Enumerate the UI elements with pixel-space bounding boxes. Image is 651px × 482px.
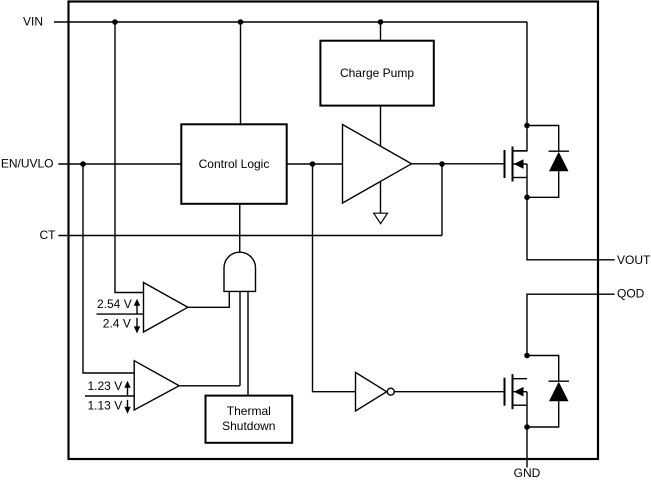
wire driver output to top FET gate: [412, 163, 505, 165]
wire VIN to top FET drain: [514, 22, 528, 151]
diode D2 body diode: [527, 356, 569, 428]
body stub Q1 with arrow: [514, 163, 528, 165]
transistor Q1 pass FET: [505, 147, 528, 198]
wire EN comparator reference stub: [85, 395, 134, 397]
wire VIN rail: [54, 21, 527, 23]
svg-text:GND: GND: [514, 466, 541, 480]
node Q1 source junction: [524, 195, 530, 201]
node Q2 drain junction: [524, 353, 530, 359]
block U4 Thermal Shutdown: [206, 396, 293, 443]
source stub Q2: [514, 404, 528, 406]
node Q1 drain junction: [524, 123, 530, 129]
wire QOD: [527, 294, 615, 355]
block U2 Charge Pump: [320, 41, 433, 106]
IC outline: [69, 2, 599, 460]
svg-text:Control Logic: Control Logic: [199, 157, 270, 171]
inverter U5: [356, 372, 387, 411]
wire EN sense to EN comparator: [83, 164, 134, 373]
block U1 Control Logic: [181, 124, 286, 204]
wire EN comparator output to AND input: [179, 291, 240, 385]
gate bar Q2: [504, 378, 506, 406]
svg-text:EN/UVLO: EN/UVLO: [1, 156, 54, 170]
channel bar Q2: [512, 374, 514, 409]
wire AND output to control logic: [239, 204, 241, 252]
node EN sense junction: [80, 161, 86, 167]
node control logic supply junction: [238, 19, 244, 25]
wire GND: [526, 427, 528, 468]
wire VIN to control logic top: [240, 22, 242, 124]
channel bar Q1: [512, 147, 514, 182]
arrow up threshold: [136, 305, 138, 314]
source stub Q1: [514, 177, 528, 179]
diode D1 body diode: [527, 126, 569, 198]
node inverter tap junction: [310, 161, 316, 167]
drain stub Q2: [514, 378, 528, 380]
arrow up threshold EN: [127, 386, 129, 395]
wire Q2 source/body to GND node: [526, 392, 528, 427]
node gate drive junction: [439, 161, 445, 167]
body stub Q2 with arrow: [514, 391, 528, 393]
wire EN/UVLO to control logic: [58, 163, 181, 165]
wire driver to ground symbol: [380, 182, 382, 214]
arrow down threshold: [136, 318, 138, 327]
wire inverter output to QOD FET gate: [394, 391, 504, 393]
wire CT: [58, 235, 442, 237]
inverter bubble: [387, 388, 394, 395]
comparator A3 EN: [134, 361, 179, 410]
ground: [374, 213, 388, 224]
node VIN sense junction: [112, 19, 118, 25]
wire thermal shutdown to AND input: [247, 291, 249, 395]
node charge pump supply junction: [378, 19, 384, 25]
wire VOUT: [527, 197, 615, 259]
wire UVLO comparator reference stub: [97, 313, 144, 315]
svg-text:2.54 V: 2.54 V: [97, 297, 132, 311]
comparator A2 UVLO: [144, 283, 188, 333]
wire Q1 source/body to VOUT node: [526, 164, 528, 197]
svg-text:2.4 V: 2.4 V: [103, 316, 131, 330]
drain stub Q1: [514, 150, 528, 152]
svg-text:VOUT: VOUT: [617, 253, 651, 267]
transistor Q2 QOD FET: [505, 374, 528, 427]
svg-text:QOD: QOD: [617, 286, 645, 300]
wire control logic to gate driver: [287, 163, 343, 165]
op-amp gate driver A1: [343, 125, 412, 204]
svg-text:1.23 V: 1.23 V: [88, 379, 123, 393]
svg-text:VIN: VIN: [23, 14, 43, 28]
wire charge pump to driver: [380, 106, 382, 147]
arrow down threshold EN: [127, 400, 129, 409]
svg-text:CT: CT: [40, 228, 57, 242]
wire UVLO comparator output to AND input: [188, 291, 230, 307]
svg-text:Thermal: Thermal: [227, 404, 271, 418]
wire VIN sense to UVLO comparator: [115, 22, 144, 293]
wire inverter feed: [313, 164, 356, 392]
svg-text:Shutdown: Shutdown: [222, 419, 275, 433]
gate bar Q1: [504, 150, 506, 178]
wire VIN to charge pump top: [380, 22, 382, 41]
wire gate node to CT: [441, 164, 443, 236]
svg-text:Charge Pump: Charge Pump: [340, 66, 414, 80]
svg-text:1.13 V: 1.13 V: [88, 398, 123, 412]
node Q2 source junction: [524, 424, 530, 430]
AND gate U3: [224, 252, 256, 291]
